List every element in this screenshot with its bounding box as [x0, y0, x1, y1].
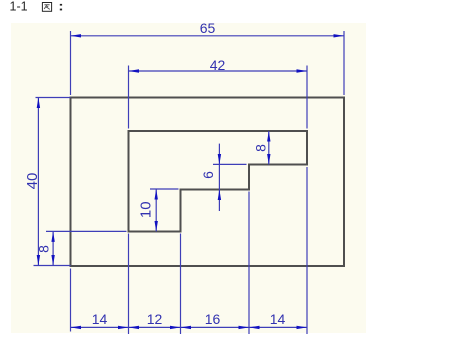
dimension line 6 lower leader: [218, 190, 220, 212]
arrowheads dim 42: [129, 69, 308, 72]
dim text 14 first: [92, 311, 108, 327]
bottom extension line at x307: [306, 167, 308, 334]
svg-text:65: 65: [200, 20, 216, 36]
dimension line 42: [129, 70, 308, 72]
extension line top of dim 8 lower-left: [46, 230, 127, 232]
svg-text:12: 12: [147, 311, 163, 327]
bottom extension line at x128: [128, 234, 130, 335]
arrowheads dim 8 right step: [267, 131, 270, 165]
svg-text:42: 42: [210, 57, 226, 73]
extension line for dim 6: [213, 163, 247, 165]
dim text 12: [147, 311, 163, 327]
bottom extension line at x180: [180, 234, 182, 335]
dimension line 6 through segment: [218, 165, 220, 190]
svg-text:14: 14: [92, 311, 108, 327]
dim text 14 second: [270, 311, 286, 327]
svg-text:16: 16: [205, 311, 221, 327]
bottom extension line at x249: [248, 192, 250, 335]
arrowheads dim 6: [218, 154, 221, 200]
extension line for dim 10: [150, 188, 179, 190]
svg-text:8: 8: [36, 245, 52, 253]
arrowheads dim 10: [155, 189, 158, 232]
svg-text:8: 8: [253, 144, 269, 152]
outer rectangle of part: [71, 98, 345, 267]
extension line right of dim 65: [343, 31, 345, 95]
dim text 40 rotated: [24, 173, 41, 190]
stepped profile polygon: [129, 131, 308, 232]
dim text 8 lower-left rotated: [36, 245, 52, 253]
extension line left of dim 42: [128, 66, 130, 129]
dim text 8 right step rotated: [253, 144, 269, 152]
svg-text:10: 10: [138, 201, 155, 218]
dimension line 40: [37, 98, 39, 266]
svg-text:40: 40: [24, 173, 41, 190]
extension line top of dim 40: [36, 97, 71, 99]
dim text 10 rotated: [138, 201, 155, 218]
drawing canvas cream background: [11, 23, 366, 333]
dimension line 65: [71, 35, 345, 37]
dimension line 10: [155, 189, 157, 232]
title fullwidth colon: [60, 4, 62, 11]
dimension line 8 lower-left: [52, 231, 54, 265]
svg-text:1-1: 1-1: [10, 0, 28, 14]
arrowheads dim 8 lower-left: [51, 231, 54, 265]
arrowheads dim 40: [37, 98, 40, 266]
arrowheads dim 65: [71, 34, 345, 37]
bottom dimension chain line: [71, 326, 308, 328]
dim text 16: [205, 311, 221, 327]
extension line left of dim 65: [70, 31, 72, 95]
dimension line 6 upper leader: [218, 144, 220, 165]
extension line right of dim 42: [306, 66, 308, 129]
dim text 6 rotated: [200, 171, 216, 179]
dim text 65: [200, 20, 216, 36]
dim text 42: [210, 57, 226, 73]
title text 1-1: [10, 0, 28, 14]
title CJK character tu (drawing): [42, 3, 51, 12]
bottom extension line at x70: [70, 269, 72, 332]
extension line bottom of dim 40: [34, 265, 71, 267]
arrowheads bottom chain: [71, 326, 308, 329]
dimension line 8 right step: [268, 131, 270, 165]
svg-text:14: 14: [270, 311, 286, 327]
svg-text:6: 6: [200, 171, 216, 179]
